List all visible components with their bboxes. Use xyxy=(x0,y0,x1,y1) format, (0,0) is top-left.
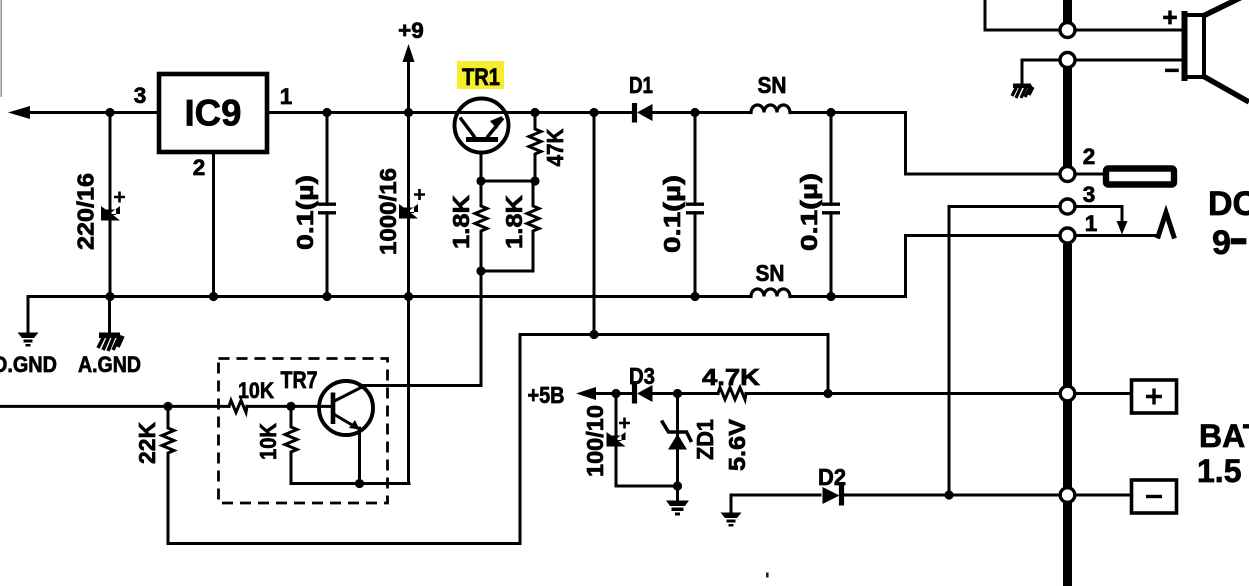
wire +9 vertical full xyxy=(407,58,410,484)
wire D1 to SN xyxy=(652,111,751,114)
battery plus box xyxy=(1132,380,1177,413)
node TR7 emitter xyxy=(355,479,364,488)
node D1 branch xyxy=(589,108,598,117)
node +9 rail xyxy=(404,108,413,117)
svg-text:TR1: TR1 xyxy=(462,64,500,91)
plug tip symbol xyxy=(1158,213,1175,239)
zener ZD1 triangle xyxy=(668,434,687,450)
svg-text:SN: SN xyxy=(756,260,785,286)
node 100/10 top xyxy=(611,389,620,398)
wire 4.7K line to battery plus xyxy=(595,392,1060,395)
wire 1.8K bottom link xyxy=(481,270,533,273)
wire IC9 pin1 to D1 xyxy=(267,111,633,114)
transistor TR1 base bar xyxy=(466,137,498,142)
wire pin2 to plate xyxy=(1075,173,1103,176)
wire 10K to TR7 base xyxy=(247,405,333,408)
capacitor 0.1 C1 xyxy=(326,113,329,297)
ground speaker symbol xyxy=(1013,84,1031,89)
svg-text:A.GND: A.GND xyxy=(78,352,141,377)
wire TR1 node line xyxy=(481,180,535,183)
battery minus sign xyxy=(1146,495,1162,498)
MAIN_RAIL_GROUP xyxy=(0,58,1060,544)
svg-text:D.GND: D.GND xyxy=(0,352,57,377)
resistor 10K vertical xyxy=(285,406,297,483)
svg-text:+9: +9 xyxy=(398,18,424,43)
inductor SN bottom xyxy=(751,289,790,296)
connector circle pin1 xyxy=(1060,228,1075,243)
svg-text:BAT: BAT xyxy=(1199,418,1249,454)
node 1.8K bottom xyxy=(476,266,485,275)
connector bar bottom segment xyxy=(1063,244,1072,586)
svg-text:DC: DC xyxy=(1208,185,1249,223)
connector circle pin2 xyxy=(1060,167,1075,182)
diode D1 cathode bar xyxy=(632,103,637,123)
connector circle pin3 xyxy=(1060,199,1075,214)
node ZD1 top xyxy=(673,389,682,398)
arrow pin3 down xyxy=(1117,221,1128,235)
wire D2 gnd stub xyxy=(730,495,733,512)
node 22K top xyxy=(163,402,172,411)
svg-text:22K: 22K xyxy=(134,422,160,464)
ground speaker stub xyxy=(1021,60,1024,84)
capacitor 0.1 C2 xyxy=(694,113,697,297)
svg-text:IC9: IC9 xyxy=(185,93,242,134)
svg-text:1: 1 xyxy=(280,84,293,109)
connector circle bat minus xyxy=(1060,488,1075,503)
ground bus wire xyxy=(28,295,751,298)
node 0.1 cap2 bottom xyxy=(690,292,699,301)
wire bat minus box xyxy=(1075,494,1132,497)
zener ZD1 wire xyxy=(676,394,679,487)
wire bat plus box xyxy=(1075,392,1132,395)
node 220/16 bottom xyxy=(105,292,114,301)
svg-text:3: 3 xyxy=(1083,182,1096,207)
node TR1 base right xyxy=(530,176,539,185)
resistor 10K horizontal xyxy=(229,400,247,412)
svg-text:SN: SN xyxy=(758,72,787,98)
connector circle bat plus xyxy=(1060,386,1075,401)
inductor SN top xyxy=(751,105,790,112)
capacitor 220/16 wire xyxy=(109,113,112,297)
node ZD1 bottom xyxy=(673,481,682,490)
svg-text:100/10: 100/10 xyxy=(582,405,608,477)
wire IC9 pin2 xyxy=(212,152,215,297)
power +9 arrow xyxy=(403,44,415,62)
ground bus wire right of SN xyxy=(790,236,1060,297)
svg-text:1.8K: 1.8K xyxy=(448,195,474,249)
node 10K vert top xyxy=(286,402,295,411)
svg-text:1: 1 xyxy=(1085,211,1098,236)
node 220/16 top xyxy=(105,108,114,117)
node 1000/16 bottom xyxy=(404,292,413,301)
wire pin3 right xyxy=(1075,207,1122,223)
svg-text:220/16: 220/16 xyxy=(73,173,99,250)
wire speaker plus xyxy=(985,0,1183,30)
ground below D2 xyxy=(721,513,742,527)
ground D.GND stub xyxy=(27,297,30,334)
svg-text:+5B: +5B xyxy=(528,382,565,408)
capacitor 100/10 body xyxy=(607,432,626,447)
speaker driver xyxy=(1184,15,1204,77)
svg-text:+: + xyxy=(1162,2,1177,32)
diode D2 cathode bar xyxy=(839,485,844,506)
transistor TR1 right lead xyxy=(487,118,503,138)
scan speck xyxy=(766,573,769,578)
capacitor 220/16 polarity plus xyxy=(114,192,125,203)
dashed box TR7 xyxy=(219,359,388,504)
node +5B tee xyxy=(589,330,598,339)
connector bar top segment xyxy=(1063,0,1072,23)
node 47K top xyxy=(530,108,539,117)
ground below ZD1 xyxy=(666,501,689,516)
svg-text:0.1(µ): 0.1(µ) xyxy=(659,175,685,253)
capacitor 0.1 C2 plates xyxy=(686,204,704,213)
transistor TR1 left lead xyxy=(460,118,475,138)
speaker cone bottom xyxy=(1203,76,1249,102)
svg-text:0.1(µ): 0.1(µ) xyxy=(292,175,318,250)
transistor TR7 emitter lead xyxy=(334,414,359,429)
transistor TR1 circle xyxy=(455,99,509,153)
label 9- dash xyxy=(1231,239,1246,245)
speaker cone top xyxy=(1203,0,1244,16)
wire TR1 base down xyxy=(480,152,483,181)
svg-text:2: 2 xyxy=(193,155,206,180)
capacitor 0.1 C1 plates xyxy=(318,204,336,213)
node 0.1 cap1 bottom xyxy=(322,292,331,301)
node TR1 base left xyxy=(476,176,485,185)
wire TR7 emitter bottom xyxy=(291,482,409,485)
wire D2 line xyxy=(731,494,1060,497)
zener ZD1 cathode bar xyxy=(662,421,692,443)
svg-text:3: 3 xyxy=(134,83,147,108)
resistor 1.8K left xyxy=(475,181,487,271)
wire speaker minus xyxy=(1022,59,1183,62)
node 4.7K right xyxy=(823,389,832,398)
node IC9 pin2 bottom xyxy=(209,292,218,301)
ground A.GND stub xyxy=(108,297,111,334)
arrow left output xyxy=(8,106,30,119)
svg-text:0.1(µ): 0.1(µ) xyxy=(796,173,822,251)
transistor TR1 arrow xyxy=(490,116,502,129)
battery minus box xyxy=(1132,480,1177,513)
transistor TR7 base bar xyxy=(331,393,336,425)
wire input line xyxy=(0,405,229,408)
svg-text:TR7: TR7 xyxy=(281,367,318,394)
transistor TR7 circle xyxy=(319,381,373,435)
transistor TR7 emitter arrow xyxy=(349,420,360,430)
wire D1 branch vertical xyxy=(593,113,596,335)
resistor 4.7K xyxy=(718,388,746,400)
node D2 line junction xyxy=(944,490,953,499)
svg-text:−: − xyxy=(1164,55,1179,85)
svg-text:D3: D3 xyxy=(629,363,655,389)
connector circle spk minus xyxy=(1060,53,1075,68)
svg-text:ZD1: ZD1 xyxy=(692,419,718,460)
wire ZD1 bottom link xyxy=(616,486,678,500)
svg-text:5.6V: 5.6V xyxy=(724,419,750,471)
svg-text:10K: 10K xyxy=(255,423,281,460)
transistor TR7 collector lead xyxy=(334,387,363,402)
ground A.GND symbol xyxy=(99,333,120,339)
wire pin3 to D2 line vertical xyxy=(949,207,1060,496)
blank label plate xyxy=(1106,169,1174,185)
wire TR7 collector xyxy=(360,271,481,386)
arrow +5B xyxy=(576,387,596,400)
svg-text:4.7K: 4.7K xyxy=(702,364,760,390)
resistor 22K xyxy=(162,406,174,543)
svg-text:1.5: 1.5 xyxy=(1197,453,1241,489)
capacitor 0.1 C3 plates xyxy=(822,204,840,213)
node 0.1 cap2 top xyxy=(690,108,699,117)
connector circle spk plus xyxy=(1060,23,1075,38)
diode D3 xyxy=(637,385,653,402)
capacitor 1000/16 body xyxy=(399,204,418,219)
svg-text:47K: 47K xyxy=(542,128,568,166)
battery plus sign xyxy=(1146,389,1162,405)
page edge artifact line xyxy=(0,0,2,97)
diode D1 xyxy=(637,104,653,121)
svg-text:1.8K: 1.8K xyxy=(501,195,527,249)
wire bottom loop xyxy=(168,335,520,544)
svg-text:1000/16: 1000/16 xyxy=(375,168,401,255)
svg-text:9: 9 xyxy=(1212,224,1231,262)
svg-text:D2: D2 xyxy=(818,464,846,490)
wire pin1 right xyxy=(1075,234,1156,237)
capacitor 0.1 C3 xyxy=(830,113,833,297)
node 0.1 cap3 bottom xyxy=(826,292,835,301)
wire TR7 emitter down xyxy=(358,428,361,484)
wire arrow to IC9 xyxy=(26,111,159,114)
diode D2 xyxy=(823,487,840,504)
node 0.1 cap3 top xyxy=(826,108,835,117)
node 0.1 cap1 top xyxy=(322,108,331,117)
regulator IC9 xyxy=(159,74,267,152)
connector bar mid segment xyxy=(1063,68,1072,166)
wire SN to corner xyxy=(790,113,1060,175)
resistor 47K xyxy=(529,113,541,182)
wire +5B node line xyxy=(520,335,828,394)
capacitor 220/16 body xyxy=(101,206,120,221)
ground D.GND symbol xyxy=(18,333,39,347)
svg-text:2: 2 xyxy=(1083,144,1096,169)
capacitor 100/10 polarity plus xyxy=(619,418,630,429)
capacitor 1000/16 polarity plus xyxy=(414,189,425,200)
capacitor 100/10 wire xyxy=(615,394,618,487)
resistor 1.8K right xyxy=(527,181,539,271)
svg-text:10K: 10K xyxy=(238,378,275,403)
diode D3 cathode bar xyxy=(632,384,637,404)
transistor TR1 highlight xyxy=(457,61,504,89)
svg-text:D1: D1 xyxy=(629,72,653,98)
